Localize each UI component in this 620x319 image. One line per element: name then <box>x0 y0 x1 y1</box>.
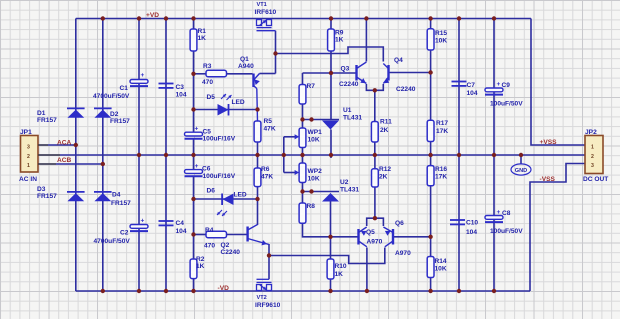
svg-text:3: 3 <box>27 145 30 151</box>
junction mid rail x193.5 <box>191 153 195 157</box>
svg-text:+: + <box>195 163 199 170</box>
svg-text:10K: 10K <box>435 38 447 45</box>
junction Q1 gate node <box>273 51 277 55</box>
svg-text:LED: LED <box>234 192 247 199</box>
junction mid rail x283.8 <box>282 153 286 157</box>
svg-text:Q6: Q6 <box>395 220 404 227</box>
svg-text:D3: D3 <box>37 186 46 193</box>
wire VT2 gate node <box>268 256 270 280</box>
junction U1 ref row left <box>300 117 304 121</box>
wire JP1 pin3 <box>38 144 48 146</box>
svg-text:470: 470 <box>204 243 215 250</box>
junction Q4 base tap <box>428 70 432 74</box>
svg-text:+: + <box>141 72 145 79</box>
svg-text:LED: LED <box>232 99 245 106</box>
svg-text:100uF/16V: 100uF/16V <box>203 136 236 143</box>
svg-text:FR157: FR157 <box>37 117 57 124</box>
diode D2 FR157 <box>94 107 112 109</box>
capacitor C3 104 <box>159 83 174 85</box>
junction D6 row right <box>255 197 259 201</box>
svg-text:C2240: C2240 <box>221 249 241 256</box>
resistor R7 <box>299 85 306 105</box>
junction diff pair emitters bottom <box>373 216 377 220</box>
svg-text:JP1: JP1 <box>20 129 32 136</box>
junction D5 row right <box>255 107 259 111</box>
wire C7/C10 column <box>458 19 460 292</box>
junction bottom rail x494 <box>492 289 496 293</box>
svg-text:2K: 2K <box>380 127 389 134</box>
junction mid rail x302.5 <box>300 153 304 157</box>
junction mid rail x521 <box>519 153 523 157</box>
junction top rail x166 <box>164 16 168 20</box>
svg-text:47K: 47K <box>261 174 273 181</box>
svg-text:A940: A940 <box>238 63 254 70</box>
svg-text:AC IN: AC IN <box>19 176 37 183</box>
transistor Q6 A970 <box>392 229 394 245</box>
svg-text:100uF/50V: 100uF/50V <box>490 228 523 235</box>
junction mid rail x374.8 <box>373 153 377 157</box>
wire LED row bottom <box>194 198 258 200</box>
wire R4 left stub <box>194 234 207 236</box>
wire bridge column ACA x76 <box>75 19 77 292</box>
svg-text:C2240: C2240 <box>339 81 359 88</box>
svg-text:VT2: VT2 <box>257 295 267 301</box>
transistor Q2 C2240 <box>246 227 248 242</box>
svg-text:100uF/50V: 100uF/50V <box>490 101 523 108</box>
wire U1 to mid rail <box>330 130 332 156</box>
junction mid rail x430.6 <box>428 153 432 157</box>
svg-text:U2: U2 <box>340 179 349 186</box>
led D5 <box>218 104 229 116</box>
svg-text:U1: U1 <box>343 107 352 114</box>
junction U2 ref row right <box>309 189 313 193</box>
resistor R9 1K <box>328 29 335 51</box>
junction R9/Q3 base <box>329 71 333 75</box>
svg-text:R17: R17 <box>436 120 448 127</box>
svg-text:10K: 10K <box>308 137 320 144</box>
junction diff pair emitters top <box>373 88 377 92</box>
resistor R8 <box>299 203 306 223</box>
svg-text:C6: C6 <box>202 166 211 173</box>
svg-text:JP2: JP2 <box>585 129 597 136</box>
junction R4 stub <box>191 232 195 236</box>
capacitor C8 100uF/50V <box>485 216 503 220</box>
wire Q5/Q6 emitter staple <box>367 218 384 226</box>
wire WP2 to R8 <box>302 183 304 204</box>
svg-text:+: + <box>497 81 501 88</box>
wire R9 column <box>330 19 332 30</box>
svg-text:Q1: Q1 <box>240 56 249 63</box>
wire R12 column <box>374 155 376 169</box>
svg-text:C5: C5 <box>203 129 212 136</box>
junction U1 ref row right <box>309 117 313 121</box>
resistor R15 10K <box>427 29 434 50</box>
svg-text:R8: R8 <box>307 203 316 210</box>
potentiometer WP1 10K <box>299 128 306 148</box>
svg-text:WP1: WP1 <box>308 129 323 136</box>
wire C6 to D6 row to R2 <box>193 176 195 259</box>
wire mid GND rail <box>38 154 585 156</box>
diode D3 FR157 <box>67 191 85 193</box>
svg-text:R5: R5 <box>264 118 273 125</box>
svg-text:Q5: Q5 <box>366 229 375 236</box>
resistor R5 47K <box>254 121 261 142</box>
junction bottom rail x193.5 <box>191 289 195 293</box>
wire +VSS drop right <box>531 19 585 146</box>
wire LED row top <box>194 109 258 111</box>
transistor Q4 C2240 <box>387 65 389 81</box>
svg-text:FR157: FR157 <box>111 200 131 207</box>
junction bottom rail x459 <box>457 289 461 293</box>
wire U2 bottom to Q5 base to R10 <box>330 202 332 260</box>
svg-text:3: 3 <box>591 163 594 169</box>
led D6 <box>223 194 234 206</box>
wire R15 column <box>430 19 432 29</box>
wire R10 to bottom rail <box>330 279 332 291</box>
svg-text:A970: A970 <box>395 250 411 257</box>
svg-text:FR157: FR157 <box>37 193 57 200</box>
resistor R11 2K <box>371 122 378 143</box>
svg-text:2K: 2K <box>379 174 388 181</box>
svg-text:TL431: TL431 <box>343 115 362 122</box>
junction bottom rail x330.5 <box>328 289 332 293</box>
junction mid rail x331 <box>329 153 333 157</box>
svg-text:Q3: Q3 <box>341 66 350 73</box>
wire Q2 emitter node up <box>268 244 270 256</box>
junction Q6 base tap <box>428 235 432 239</box>
junction top rail x139 <box>137 16 141 20</box>
capacitor C4 104 <box>159 220 174 222</box>
junction mid rail x257.5 <box>255 153 259 157</box>
svg-text:+: + <box>141 218 145 225</box>
svg-text:C4: C4 <box>176 220 185 227</box>
capacitor C2 4700uF/50V <box>130 225 148 229</box>
svg-text:C3: C3 <box>176 84 185 91</box>
junction top rail x331 <box>329 16 333 20</box>
svg-text:1: 1 <box>27 163 30 169</box>
shunt reference U1 TL431 <box>322 121 339 130</box>
svg-text:100uF/16V: 100uF/16V <box>203 173 236 180</box>
svg-text:R6: R6 <box>261 166 270 173</box>
junction D5 row left <box>191 107 195 111</box>
wire R3 left stub <box>194 73 207 75</box>
capacitor C6 100uF/16V <box>185 170 203 174</box>
connector JP2 <box>585 136 603 174</box>
wire R4 to Q2 base <box>227 234 247 236</box>
wire R7 bottom to WP1 <box>302 104 304 128</box>
wire R6 to Q2 collector <box>257 187 259 225</box>
svg-text:Q2: Q2 <box>221 242 230 249</box>
svg-text:R11: R11 <box>380 119 392 126</box>
svg-text:1K: 1K <box>335 271 344 278</box>
wire mid rail to U2 <box>330 155 332 158</box>
wire bridge column ACB x103 <box>102 19 104 292</box>
svg-text:R16: R16 <box>435 166 447 173</box>
wire ACB <box>38 163 103 165</box>
capacitor C9 100uF/50V <box>485 88 503 92</box>
diode D4 FR157 <box>94 191 112 193</box>
connector JP1 <box>21 136 39 173</box>
svg-text:R9: R9 <box>335 30 344 37</box>
resistor R4 470 <box>206 231 227 237</box>
svg-text:4700uF/50V: 4700uF/50V <box>94 238 131 245</box>
svg-text:C1: C1 <box>120 85 129 92</box>
svg-text:VT1: VT1 <box>257 2 267 8</box>
wire C5 to mid rail to C6 <box>193 139 195 170</box>
junction bottom rail x366.9 <box>365 289 369 293</box>
wire C1/C2 column <box>138 19 140 292</box>
junction mid rail x166 <box>164 153 168 157</box>
junction ACB node <box>101 162 105 166</box>
power port GND <box>511 164 531 175</box>
svg-text:R12: R12 <box>379 166 391 173</box>
mosfet VT2 IRF9610 <box>257 285 262 291</box>
svg-text:R3: R3 <box>203 63 212 70</box>
wire R1 column upper <box>193 19 195 30</box>
wire U1 ref row <box>303 119 340 121</box>
junction mid rail x459 <box>457 153 461 157</box>
svg-text:4700uF/50V: 4700uF/50V <box>93 93 130 100</box>
junction top rail x494 <box>492 16 496 20</box>
wire WP2 wiper arrow <box>284 172 295 174</box>
wire Q6 base to R16/R14 tap <box>393 236 431 238</box>
mosfet VT1 IRF610 <box>257 20 262 26</box>
wire JP1 pin1 <box>38 163 56 165</box>
svg-text:D1: D1 <box>37 110 46 117</box>
transistor Q3 C2240 <box>355 65 357 81</box>
wire Q1 node to Q4 collector staple <box>276 47 384 62</box>
svg-text:Q4: Q4 <box>394 57 403 64</box>
junction D6 row left <box>191 197 195 201</box>
wire R2 to bottom rail <box>193 279 195 291</box>
wire Q3 base row / R7 top <box>303 72 357 74</box>
svg-text:TL431: TL431 <box>340 187 359 194</box>
capacitor C10 104 <box>450 219 465 221</box>
svg-text:ACB: ACB <box>57 157 72 164</box>
svg-text:104: 104 <box>176 228 187 235</box>
transistor Q1 A940 <box>252 74 254 88</box>
junction bottom rail x166 <box>164 289 168 293</box>
wire Q3 collector to top rail <box>365 19 367 62</box>
wire R5 to mid to R6 <box>257 142 259 168</box>
wire Q3/Q4 emitter staple <box>366 84 383 90</box>
svg-text:10K: 10K <box>435 266 447 273</box>
junction top rail x102.8 <box>101 16 105 20</box>
svg-text:C2: C2 <box>120 230 129 237</box>
svg-text:R7: R7 <box>307 83 316 90</box>
junction top rail x193.5 <box>191 16 195 20</box>
svg-text:2: 2 <box>27 154 30 160</box>
svg-text:IRF9610: IRF9610 <box>255 302 281 309</box>
svg-text:C10: C10 <box>466 220 478 227</box>
wire R11 column <box>374 90 376 121</box>
svg-text:R1: R1 <box>198 28 207 35</box>
svg-text:R14: R14 <box>435 258 447 265</box>
resistor R12 2K <box>372 169 379 187</box>
wire wiper tree vertical <box>283 137 285 173</box>
wire GND stub <box>520 155 522 164</box>
svg-text:104: 104 <box>467 90 478 97</box>
junction R3 stub <box>191 72 195 76</box>
wire Q5 collector to bottom rail <box>366 248 368 292</box>
resistor R10 1K <box>327 259 334 279</box>
svg-text:10K: 10K <box>308 176 320 183</box>
wire mid rail to WP2 <box>302 155 304 163</box>
resistor R17 17K <box>427 120 434 141</box>
svg-text:D6: D6 <box>207 188 216 195</box>
junction top rail x366.4 <box>364 16 368 20</box>
capacitor C1 4700uF/50V <box>130 80 148 84</box>
resistor R3 470 <box>206 70 227 76</box>
wire U2 ref row <box>303 191 340 193</box>
junction top rail x459 <box>457 16 461 20</box>
wire R1 to LED row and C5 <box>193 51 195 132</box>
svg-text:D2: D2 <box>110 111 119 118</box>
svg-text:R15: R15 <box>435 30 447 37</box>
svg-text:+: + <box>497 209 501 216</box>
junction bottom rail x102.8 <box>101 289 105 293</box>
svg-text:R2: R2 <box>196 256 205 263</box>
resistor R2 1K <box>190 259 197 279</box>
svg-text:C7: C7 <box>467 82 476 89</box>
transistor Q5 A970 <box>357 229 359 245</box>
wire VT1 gate node down to Q1 <box>275 31 277 74</box>
svg-text:ACA: ACA <box>57 140 72 147</box>
resistor R1 1K <box>190 29 197 51</box>
resistor R16 17K <box>427 166 434 186</box>
svg-text:R10: R10 <box>335 263 347 270</box>
wire -VSS path to JP2 <box>530 164 585 292</box>
svg-text:WP2: WP2 <box>308 168 323 175</box>
svg-text:1K: 1K <box>198 35 207 42</box>
junction ACA node <box>74 143 78 147</box>
svg-text:17K: 17K <box>436 128 448 135</box>
svg-text:+: + <box>195 126 199 133</box>
junction R10/Q5 base <box>328 235 332 239</box>
svg-text:1K: 1K <box>335 37 344 44</box>
junction bottom rail x139 <box>137 289 141 293</box>
wire JP1 pin2 <box>38 154 60 156</box>
wire ACA <box>38 144 76 146</box>
wire C3/C4 column <box>165 19 167 292</box>
svg-text:1K: 1K <box>196 263 205 270</box>
svg-text:-VSS: -VSS <box>540 176 556 183</box>
junction Q2 gate node <box>267 253 271 257</box>
svg-text:D5: D5 <box>207 94 216 101</box>
junction mid rail x494 <box>492 153 496 157</box>
svg-text:104: 104 <box>176 92 187 99</box>
svg-text:470: 470 <box>202 79 213 86</box>
junction mid rail x139 <box>137 153 141 157</box>
svg-text:C2240: C2240 <box>396 86 416 93</box>
svg-text:-VD: -VD <box>218 285 230 292</box>
junction top rail x430.6 <box>428 16 432 20</box>
wire Q4 base to R15/R17 tap <box>389 72 431 74</box>
wire Q2 node to Q6 collector staple <box>269 248 385 264</box>
junction U2 ref row left <box>300 189 304 193</box>
svg-text:C8: C8 <box>502 210 511 217</box>
diode D1 FR157 <box>67 107 85 109</box>
svg-text:C9: C9 <box>502 82 511 89</box>
svg-text:A970: A970 <box>367 239 383 246</box>
wire WP1 to mid rail <box>302 148 304 156</box>
resistor R14 10K <box>427 257 434 278</box>
wire R3 to Q1 base <box>227 73 253 75</box>
svg-text:1: 1 <box>591 145 594 151</box>
svg-text:DC OUT: DC OUT <box>583 176 608 183</box>
capacitor C7 104 <box>452 81 467 83</box>
svg-text:2: 2 <box>591 154 594 160</box>
wire WP1 wiper arrow <box>284 136 295 138</box>
svg-text:IRF610: IRF610 <box>255 9 277 16</box>
wire C9/C8 column <box>493 19 495 292</box>
wire +VD top rail <box>76 18 531 20</box>
svg-text:+VD: +VD <box>146 12 159 19</box>
capacitor C5 100uF/16V <box>185 132 203 136</box>
svg-text:104: 104 <box>466 229 477 236</box>
svg-text:R4: R4 <box>205 227 214 234</box>
svg-text:GND: GND <box>515 168 527 174</box>
wire R8 bottom to Q5 base row <box>303 223 359 237</box>
potentiometer WP2 10K <box>299 163 306 183</box>
svg-text:+VSS: +VSS <box>540 139 558 146</box>
junction bottom rail x430.6 <box>428 289 432 293</box>
resistor R6 47K <box>254 168 261 187</box>
shunt reference U2 TL431 <box>322 193 339 202</box>
svg-text:FR157: FR157 <box>110 118 130 125</box>
svg-text:47K: 47K <box>264 126 276 133</box>
svg-text:D4: D4 <box>112 192 121 199</box>
wire -VD bottom rail <box>76 290 530 292</box>
svg-text:17K: 17K <box>435 174 447 181</box>
